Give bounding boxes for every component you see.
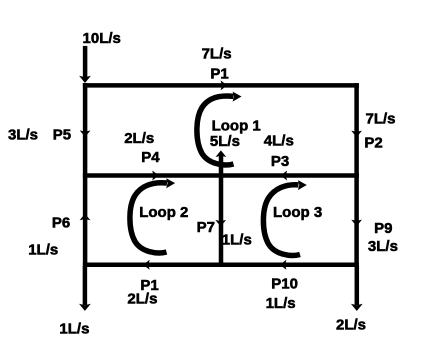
svg-text:P2: P2 bbox=[364, 135, 382, 152]
flow arrow P3 (left) bbox=[281, 171, 288, 181]
svg-text:1L/s: 1L/s bbox=[59, 321, 89, 338]
svg-text:Loop 2: Loop 2 bbox=[139, 204, 188, 221]
svg-text:P7: P7 bbox=[197, 219, 215, 236]
flow arrow P4 (right) bbox=[152, 171, 159, 181]
flow arrow 5L/s (up, center pipe) bbox=[216, 150, 227, 157]
svg-text:P6: P6 bbox=[52, 215, 70, 232]
outflow arrow bottom-right 2L/s bbox=[351, 266, 363, 311]
loop symbol Loop 1 (clockwise arc) bbox=[197, 92, 242, 165]
svg-text:3L/s: 3L/s bbox=[8, 127, 38, 144]
svg-text:Loop 3: Loop 3 bbox=[273, 204, 322, 221]
wire center vertical pipe P7 bbox=[219, 155, 224, 268]
svg-text:P5: P5 bbox=[53, 127, 71, 144]
svg-text:1L/s: 1L/s bbox=[266, 295, 296, 312]
svg-text:2L/s: 2L/s bbox=[336, 317, 366, 334]
wire right pipe (node B to node E) bbox=[354, 83, 359, 267]
flow arrow P6 (up) bbox=[80, 214, 91, 221]
flow arrow P1 bottom (left) bbox=[143, 260, 150, 270]
svg-text:1L/s: 1L/s bbox=[28, 241, 58, 258]
svg-text:1L/s: 1L/s bbox=[222, 232, 252, 249]
loop symbol Loop 3 (clockwise arc) bbox=[263, 180, 306, 255]
svg-text:4L/s: 4L/s bbox=[264, 132, 294, 149]
svg-text:Loop 1: Loop 1 bbox=[212, 118, 261, 135]
svg-text:7L/s: 7L/s bbox=[202, 46, 232, 63]
flow arrow P2 (down) bbox=[351, 131, 362, 138]
flow arrow P5 (down) bbox=[80, 130, 91, 137]
svg-text:10L/s: 10L/s bbox=[83, 30, 121, 47]
svg-text:2L/s: 2L/s bbox=[127, 291, 157, 308]
wire bottom pipe (node F to node E) bbox=[83, 262, 359, 267]
outflow arrow bottom-left 1L/s bbox=[79, 266, 91, 311]
wire middle pipe (node D to node C) bbox=[83, 173, 359, 178]
svg-text:P9: P9 bbox=[374, 220, 392, 237]
svg-text:5L/s: 5L/s bbox=[210, 133, 240, 150]
flow arrow P9 (down) bbox=[351, 220, 362, 227]
wire left pipe (node A to node F) bbox=[83, 83, 88, 267]
svg-text:P1: P1 bbox=[210, 65, 228, 82]
svg-text:7L/s: 7L/s bbox=[365, 110, 395, 127]
svg-text:P3: P3 bbox=[271, 153, 289, 170]
svg-text:3L/s: 3L/s bbox=[368, 238, 398, 255]
inflow arrow 10L/s bbox=[79, 46, 91, 83]
svg-text:P10: P10 bbox=[271, 275, 298, 292]
flow arrow P1 top (right) bbox=[221, 80, 228, 90]
wire top pipe (node A to node B) bbox=[83, 83, 359, 88]
flow arrow P10 (left) bbox=[280, 260, 287, 270]
svg-text:P4: P4 bbox=[141, 149, 160, 166]
svg-text:2L/s: 2L/s bbox=[124, 130, 154, 147]
flow arrow P7 (down, center pipe) bbox=[215, 220, 226, 227]
loop symbol Loop 2 (clockwise arc) bbox=[130, 178, 175, 253]
